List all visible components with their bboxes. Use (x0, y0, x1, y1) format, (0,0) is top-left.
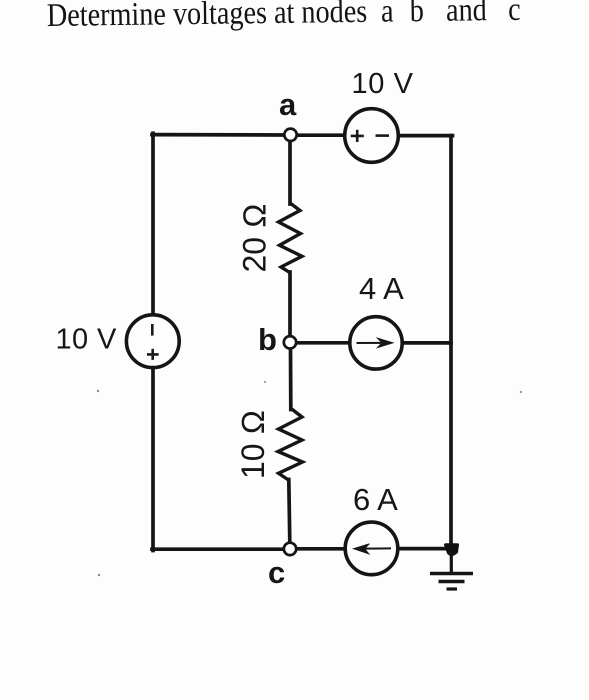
current source I1 arrow (points right) (357, 338, 394, 347)
wire node b to R2 (289, 349, 293, 410)
wire bottom-left horizontal (corner to node c) (152, 547, 284, 551)
voltage source V2 minus sign (right) (376, 134, 390, 137)
current source I1 4A: circle (350, 317, 402, 369)
scan speck (97, 390, 99, 392)
resistor R2 10ohm zigzag (278, 409, 303, 481)
wire R2 to node c (289, 480, 290, 544)
wire node b to I1 (297, 341, 352, 345)
svg-text:20 Ω: 20 Ω (237, 203, 273, 272)
ground symbol (430, 552, 473, 589)
svg-text:a: a (279, 87, 297, 122)
voltage source V1 plus sign (bottom) (147, 349, 159, 360)
current source I2 arrow (points left) (354, 544, 392, 554)
wire left vertical lower (151, 368, 155, 551)
wire V2 to top-right corner (398, 134, 453, 138)
svg-text:10 Ω: 10 Ω (235, 410, 271, 479)
scan speck (98, 574, 100, 576)
voltage source V2 10V top: circle (345, 109, 399, 163)
node b (open circle) (284, 336, 296, 348)
current source I2 6A: circle (345, 522, 398, 575)
wire R1 to node b (288, 272, 292, 336)
scan speck (520, 391, 522, 393)
svg-text:c: c (268, 555, 285, 590)
svg-text:10 V: 10 V (56, 324, 118, 356)
wire node c to I2 (297, 547, 347, 551)
voltage source V1 minus bar (top) (151, 324, 154, 336)
ground junction dot (446, 545, 458, 555)
svg-text:b: b (258, 322, 277, 357)
scan speck (264, 381, 266, 383)
wire right vertical (449, 136, 453, 549)
resistor R1 20ohm zigzag (279, 203, 303, 273)
voltage source V1 10V left: circle (126, 315, 179, 368)
voltage source V2 plus sign (left) (351, 130, 364, 142)
node a (open circle) (284, 129, 296, 141)
wire top-left horizontal (corner to node a) (152, 133, 284, 137)
wire I1 to right vertical (402, 341, 452, 345)
wire node a to V2 (297, 133, 347, 137)
title text (47, 0, 521, 33)
svg-text:6 A: 6 A (353, 482, 398, 517)
svg-text:4 A: 4 A (359, 271, 404, 306)
svg-text:10 V: 10 V (352, 68, 414, 100)
wire left vertical upper (151, 133, 155, 315)
wire node a to R1 (288, 141, 292, 204)
node c (open circle) (284, 543, 296, 555)
wire I2 to ground junction (397, 547, 452, 551)
